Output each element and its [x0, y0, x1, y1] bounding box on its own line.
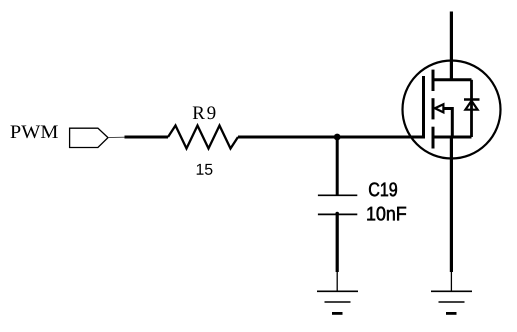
wire: junction to C19 — [336, 137, 339, 195]
value 15 — [197, 164, 213, 175]
wire: drain to top — [450, 12, 453, 80]
body diode cathode bar — [464, 98, 480, 101]
ground lead GND1 — [336, 272, 338, 291]
wire: junction to gate — [337, 136, 424, 139]
net label PWM — [10, 126, 57, 139]
ground GND2 — [431, 291, 472, 313]
capacitor C19 bottom plate — [318, 213, 357, 215]
MOSFET gate bar — [422, 76, 425, 139]
node junction — [334, 134, 341, 141]
label R9 — [193, 106, 216, 119]
wire: C19 to ground — [336, 214, 339, 272]
body diode triangle — [465, 101, 477, 110]
label C19 — [369, 182, 397, 196]
transistor Q1 MOSFET body circle — [403, 61, 501, 159]
node at C19 bottom plate — [335, 212, 339, 216]
ground GND1 — [317, 291, 358, 313]
MOSFET body connection — [436, 109, 452, 138]
MOSFET source lead — [433, 136, 472, 139]
resistor R9 — [168, 126, 238, 149]
body diode line — [470, 80, 473, 137]
value 10nF — [367, 207, 406, 221]
wire: resistor to junction — [238, 136, 337, 139]
wire: main to resistor — [125, 136, 169, 139]
capacitor C19 top plate — [318, 194, 357, 196]
wire: source to ground — [450, 137, 453, 272]
port PWM — [70, 128, 108, 147]
ground lead GND2 — [450, 272, 452, 291]
MOSFET channel segment middle — [432, 98, 435, 119]
MOSFET arrowhead — [435, 104, 444, 112]
MOSFET channel segment bottom — [432, 127, 435, 149]
MOSFET channel segment top — [432, 70, 435, 91]
MOSFET drain lead — [433, 78, 472, 81]
wire: port to main — [108, 136, 125, 138]
